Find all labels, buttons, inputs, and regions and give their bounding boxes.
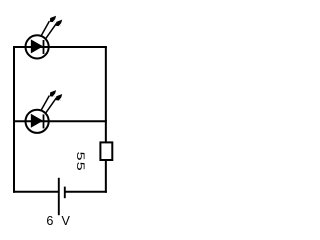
LED D1 — [25, 16, 62, 59]
wire: middle rail — [13, 120, 107, 122]
wire: right rail — [105, 46, 107, 193]
LED D1 anode triangle — [32, 41, 42, 52]
LED D2 light arrow 2 — [46, 94, 63, 113]
LED D1 light arrow 2 — [46, 20, 63, 39]
svg-text:55: 55 — [73, 151, 85, 171]
svg-text:6 V: 6 V — [46, 214, 72, 228]
wire: bottom rail right of battery — [65, 191, 107, 193]
wire: left rail — [13, 46, 15, 193]
LED D1 circle — [25, 35, 48, 58]
LED D2 cathode bar — [43, 114, 45, 128]
LED D2 circle — [25, 110, 48, 133]
wire: bottom rail left of battery — [13, 191, 59, 193]
LED D2 — [25, 90, 62, 133]
battery B1 long plate — [58, 178, 60, 215]
wire: top rail — [13, 46, 107, 48]
resistor R1 (box) — [100, 142, 112, 160]
LED D1 cathode bar — [43, 40, 45, 54]
battery B1 short plate — [64, 187, 66, 199]
LED D2 anode triangle — [32, 115, 42, 126]
LED D2 light arrow 1 — [41, 90, 56, 111]
LED D1 light arrow 1 — [41, 16, 56, 37]
